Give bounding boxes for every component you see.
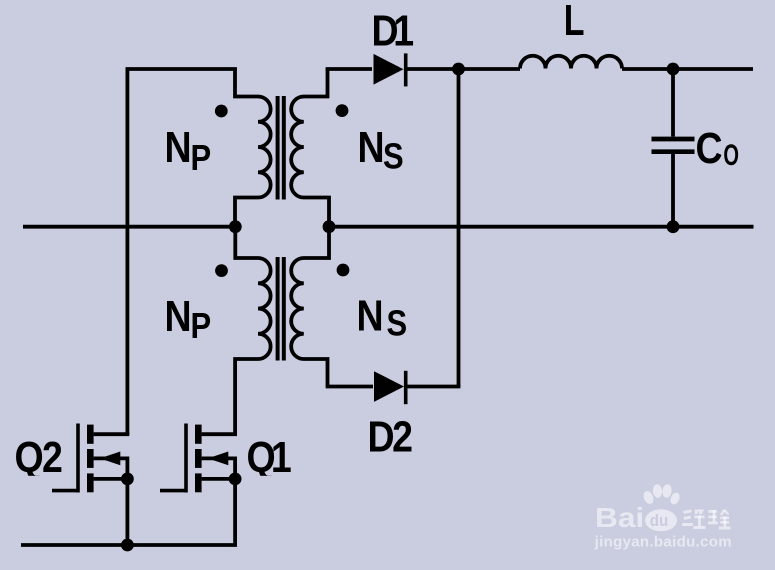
transformer lower primary winding NP [235,227,271,435]
svg-text:O: O [723,139,739,172]
wire: top output rail [406,67,753,71]
svg-text:N: N [358,122,385,171]
node: C_O bottom junction (dot) [667,220,680,233]
label D1 [372,6,414,55]
phase dot lower primary [215,264,228,277]
transformer upper primary winding NP [235,69,271,227]
label D2 [368,412,412,461]
phase dot upper secondary [336,104,349,117]
svg-text:Bai: Bai [595,503,644,534]
svg-text:N: N [165,291,192,340]
wire: vertical D1-D2 cathode bus [457,69,461,387]
transformer upper secondary winding NS [291,69,329,227]
svg-text:D2: D2 [368,412,412,461]
svg-text:jingyan.baidu.com: jingyan.baidu.com [594,533,732,550]
node: secondary center tap (dot) [323,220,336,233]
node: Q2 source dot [121,473,134,486]
transformer lower secondary winding NS [291,227,329,387]
capacitor C_O [652,69,695,227]
label NS (lower) [357,291,408,344]
label Q2 [13,432,61,481]
diode D2 [326,371,461,404]
transformer core (lower) [278,257,284,361]
svg-text:P: P [191,307,212,347]
svg-text:N: N [357,291,384,340]
label NP (lower) [165,291,212,346]
label NS (upper) [358,122,404,177]
diode D1 [326,53,406,86]
transformer core (upper) [278,96,284,200]
node: L-C junction (dot) [667,63,680,76]
watermark: Baidu jingyan logo [594,484,732,551]
inductor L [520,56,622,69]
label C_O [696,123,740,172]
node: rectifier output junction (dot) [452,63,465,76]
wire: bottom source rail [21,543,237,547]
node: primary center tap (dot) [229,220,242,233]
svg-text:du: du [650,512,669,530]
transistor Q2 (N-MOSFET) [52,424,129,546]
node: Q1 source dot [229,473,242,486]
wire: right mid rail (output return) [329,225,754,229]
label NP (upper) [165,122,212,178]
wire: Q2 drain riser and top-left drive loop to upper primary [127,69,236,434]
phase dot lower secondary [337,264,350,277]
svg-text:P: P [191,139,212,179]
svg-text:D1: D1 [372,6,414,55]
svg-text:Q2: Q2 [15,432,62,481]
label L [564,0,585,45]
node: source rail junction (dot) [121,539,134,552]
svg-text:Q1: Q1 [247,432,292,481]
svg-text:L: L [564,0,585,45]
transistor Q1 (N-MOSFET) [160,424,237,546]
svg-text:N: N [165,122,192,171]
svg-text:S: S [383,138,404,178]
svg-text:S: S [387,305,408,345]
svg-text:C: C [696,123,723,172]
phase dot upper primary [215,105,228,118]
label Q1 [245,432,291,481]
wire: left mid rail [23,225,235,229]
